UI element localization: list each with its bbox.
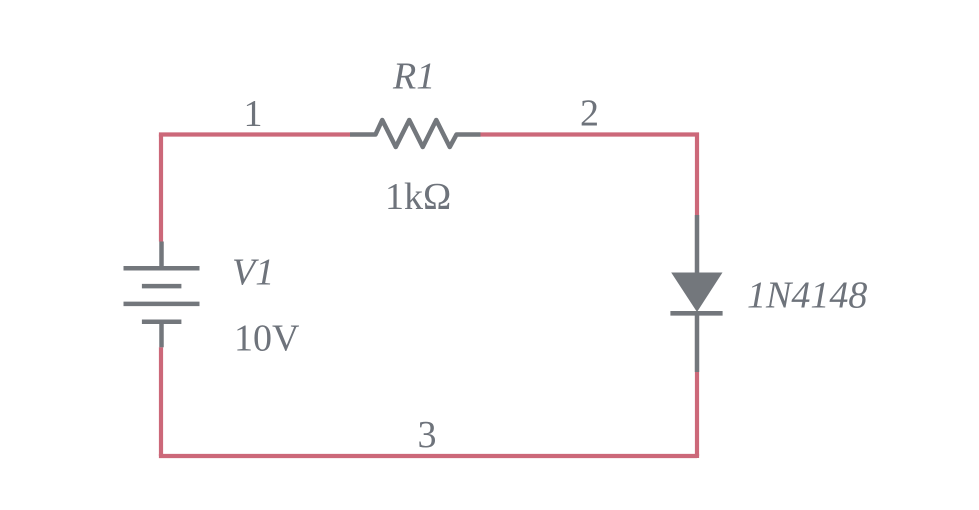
resistor R1 xyxy=(350,120,481,147)
battery V1 bottom lead xyxy=(159,322,164,348)
battery V1 top lead xyxy=(159,242,164,269)
wire: top-left segment node 1 xyxy=(161,135,350,137)
battery V1 plate 1 (long) xyxy=(124,266,200,271)
battery V1 plate 2 (short) xyxy=(142,284,182,289)
battery V1 plate 3 (long) xyxy=(124,302,200,307)
svg-text:2: 2 xyxy=(580,93,599,135)
svg-text:V1: V1 xyxy=(232,252,274,294)
svg-text:3: 3 xyxy=(418,414,437,456)
wire: top-right segment node 2 xyxy=(481,135,698,216)
diode triangle (anode) xyxy=(671,273,722,313)
diode top lead xyxy=(695,215,700,273)
diode cathode bar xyxy=(670,311,722,316)
svg-text:1kΩ: 1kΩ xyxy=(385,176,451,218)
wire: left vertical upper segment xyxy=(159,135,163,242)
diode bottom lead xyxy=(695,313,700,372)
wire: left vertical lower segment xyxy=(159,347,163,456)
svg-text:10V: 10V xyxy=(234,318,300,360)
wire: bottom segment node 3 xyxy=(161,454,697,458)
diode D1 1N4148 xyxy=(670,215,722,372)
battery V1 plate 4 (short) xyxy=(142,320,182,325)
battery V1 xyxy=(124,242,200,348)
svg-text:1N4148: 1N4148 xyxy=(747,274,867,316)
svg-text:1: 1 xyxy=(244,93,263,135)
svg-text:R1: R1 xyxy=(392,56,435,98)
wire: right vertical lower segment xyxy=(695,372,699,456)
